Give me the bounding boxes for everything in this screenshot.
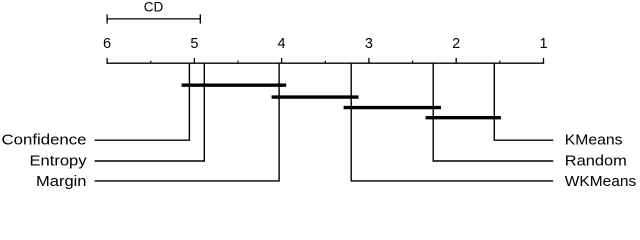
svg-text:3: 3	[365, 36, 373, 52]
clique bar Confidence-Entropy-Margin	[182, 83, 287, 86]
minor ticks	[151, 61, 500, 64]
svg-text:1: 1	[539, 36, 547, 52]
CD interval bracket	[107, 14, 200, 23]
Entropy connector line	[95, 63, 205, 161]
Random connector line	[433, 63, 553, 161]
major ticks	[107, 58, 543, 63]
svg-text:Random: Random	[565, 153, 627, 170]
svg-text:WKMeans: WKMeans	[565, 173, 637, 190]
svg-text:6: 6	[103, 36, 111, 52]
WKMeans connector line	[351, 63, 553, 181]
svg-text:2: 2	[452, 36, 460, 52]
Margin connector line	[95, 63, 280, 181]
clique bar WKMeans-Random	[344, 106, 441, 109]
KMeans connector line	[494, 63, 553, 140]
svg-text:4: 4	[278, 36, 286, 52]
svg-text:Margin: Margin	[36, 173, 87, 190]
svg-text:Confidence: Confidence	[2, 131, 87, 148]
Confidence connector line	[95, 63, 190, 140]
clique bar Random-KMeans	[426, 116, 501, 119]
rank axis line	[106, 62, 544, 64]
clique bar Margin-WKMeans	[272, 95, 359, 98]
svg-text:CD: CD	[144, 0, 164, 15]
svg-text:5: 5	[190, 36, 198, 52]
svg-text:KMeans: KMeans	[565, 131, 623, 148]
svg-text:Entropy: Entropy	[30, 153, 88, 170]
